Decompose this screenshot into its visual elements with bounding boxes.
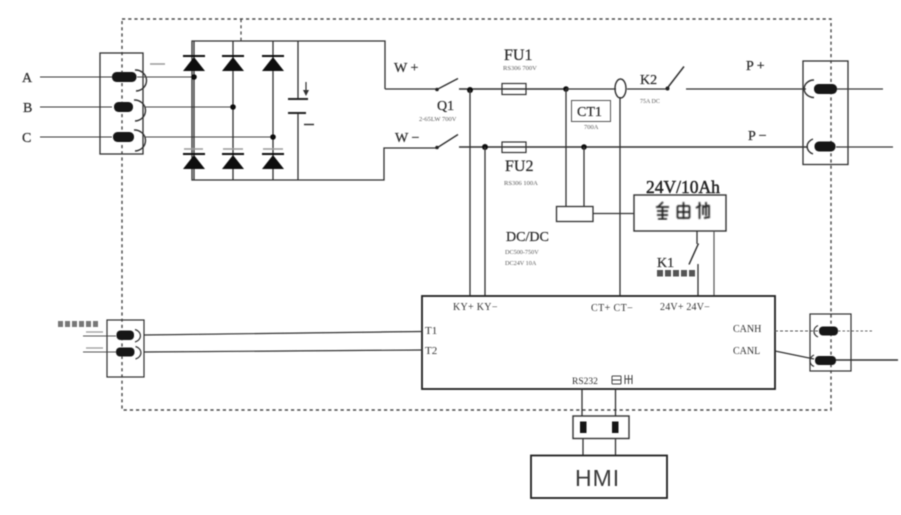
svg-text:CANL: CANL (733, 346, 760, 357)
svg-text:DC500-750V: DC500-750V (505, 249, 539, 256)
svg-text:KY+ KY−: KY+ KY− (453, 302, 498, 313)
svg-text:2-65LW 700V: 2-65LW 700V (419, 116, 457, 123)
svg-text:T1: T1 (425, 325, 437, 337)
svg-text:B: B (23, 101, 32, 116)
svg-text:W −: W − (395, 131, 419, 146)
svg-text:FU2: FU2 (505, 158, 533, 175)
svg-text:75A DC: 75A DC (640, 99, 660, 105)
svg-text:Q1: Q1 (437, 99, 454, 114)
svg-text:CT+ CT−: CT+ CT− (591, 303, 633, 314)
svg-text:24V/10Ah: 24V/10Ah (646, 177, 720, 197)
svg-text:C: C (22, 131, 31, 146)
svg-text:RS306 700V: RS306 700V (503, 65, 537, 72)
svg-text:FU1: FU1 (504, 47, 532, 64)
svg-text:P +: P + (746, 59, 765, 74)
svg-text:CT1: CT1 (577, 105, 602, 120)
svg-text:DC24V 10A: DC24V 10A (505, 260, 537, 267)
svg-text:RS306 100A: RS306 100A (504, 180, 538, 187)
svg-text:P −: P − (748, 129, 767, 144)
svg-text:CANH: CANH (733, 324, 761, 335)
svg-text:HMI: HMI (575, 465, 620, 491)
svg-text:K1: K1 (657, 256, 674, 271)
svg-text:DC/DC: DC/DC (506, 230, 549, 245)
svg-text:W +: W + (394, 61, 418, 76)
svg-text:700A: 700A (584, 124, 599, 131)
svg-text:24V+ 24V−: 24V+ 24V− (660, 302, 710, 313)
svg-text:T2: T2 (425, 345, 437, 357)
svg-text:RS232: RS232 (572, 377, 598, 387)
svg-text:K2: K2 (640, 73, 657, 88)
svg-text:A: A (22, 71, 33, 86)
